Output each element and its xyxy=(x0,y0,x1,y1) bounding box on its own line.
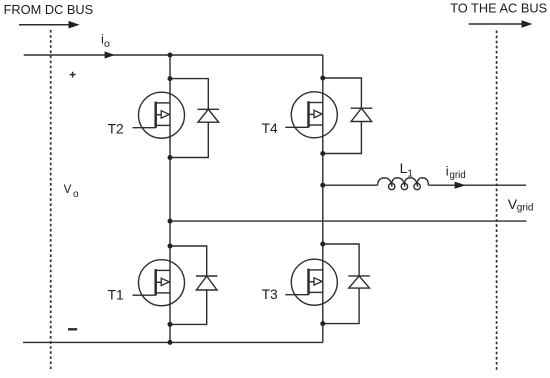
wire from inductor to AC bus xyxy=(428,184,526,186)
svg-text:T1: T1 xyxy=(108,287,124,302)
transistor T4 xyxy=(285,92,337,138)
junction right leg / T4 diode top xyxy=(320,76,325,81)
label plus xyxy=(70,72,76,78)
junction right leg midpoint / inductor wire xyxy=(320,183,325,188)
junction top rail / left leg xyxy=(168,53,173,58)
diode antiparallel with T1 xyxy=(170,246,218,324)
svg-text:V: V xyxy=(64,183,72,196)
svg-text:1: 1 xyxy=(407,168,413,179)
label TO THE AC BUS xyxy=(450,1,547,16)
junction left leg midpoint / AC output xyxy=(168,219,173,224)
svg-text:o: o xyxy=(104,38,110,50)
wire AC output from left leg midpoint xyxy=(170,220,527,222)
svg-text:o: o xyxy=(73,189,79,200)
label igrid xyxy=(446,164,466,182)
junction left leg / T2 diode top xyxy=(168,76,173,81)
svg-text:T3: T3 xyxy=(262,287,278,302)
svg-text:grid: grid xyxy=(449,170,465,181)
wire bottom DC rail xyxy=(23,341,323,343)
svg-text:L: L xyxy=(400,160,408,176)
svg-text:FROM DC BUS: FROM DC BUS xyxy=(4,2,94,17)
label Vgrid xyxy=(508,196,534,213)
label L1 xyxy=(400,160,414,179)
label Vo xyxy=(64,183,79,200)
transistor T3 xyxy=(285,259,337,305)
junction right leg / T3 diode top xyxy=(320,242,325,247)
svg-text:i: i xyxy=(446,164,449,179)
junction left leg / T1 diode bottom xyxy=(168,322,173,327)
diode antiparallel with T3 xyxy=(323,244,370,324)
svg-text:grid: grid xyxy=(517,202,534,213)
label T4 xyxy=(262,121,278,136)
label T2 xyxy=(108,121,124,136)
label FROM DC BUS xyxy=(4,2,94,17)
label io xyxy=(101,32,110,50)
label T3 xyxy=(262,287,278,302)
junction left leg / T2 diode bottom xyxy=(168,155,173,160)
current arrow io on top rail xyxy=(105,51,115,58)
wire right leg xyxy=(322,55,324,342)
transistor T1 xyxy=(133,260,185,306)
diode antiparallel with T2 xyxy=(170,79,219,158)
wire left leg xyxy=(169,55,171,342)
diode antiparallel with T4 xyxy=(323,78,372,154)
label T1 xyxy=(108,287,124,302)
wire top DC rail xyxy=(24,54,323,56)
svg-text:T4: T4 xyxy=(262,121,278,136)
svg-text:T2: T2 xyxy=(108,121,124,136)
current arrow igrid xyxy=(455,182,466,189)
DC bus boundary dashed line xyxy=(50,30,52,369)
transistor T2 xyxy=(133,92,185,138)
arrow from DC bus xyxy=(19,21,80,29)
label minus xyxy=(68,328,77,330)
arrow to AC bus xyxy=(469,20,533,28)
junction right leg / T3 diode bottom xyxy=(320,321,325,326)
inductor L1 xyxy=(378,178,429,190)
wire from right leg midpoint to inductor xyxy=(323,184,378,186)
AC bus boundary dashed line xyxy=(496,31,498,373)
svg-text:TO THE AC BUS: TO THE AC BUS xyxy=(450,1,547,16)
junction bottom rail / left leg xyxy=(168,340,173,345)
junction right leg / T4 diode bottom xyxy=(320,151,325,156)
junction left leg / T1 diode top xyxy=(168,244,173,249)
